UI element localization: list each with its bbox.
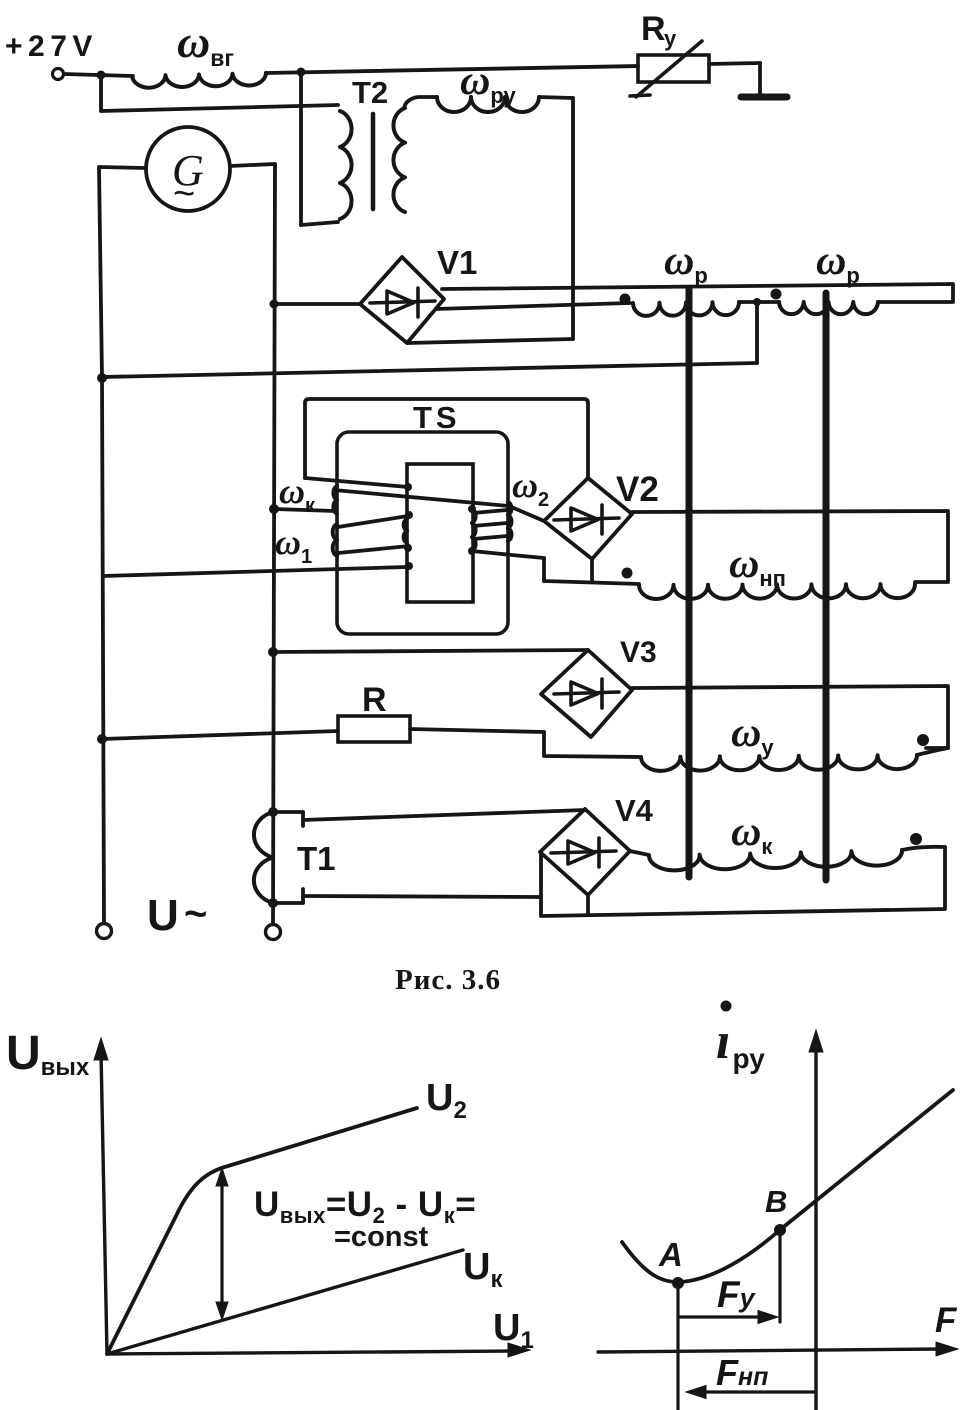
svg-text:V2: V2 [616, 470, 659, 509]
svg-text:~: ~ [184, 892, 207, 936]
svg-text:T1: T1 [297, 840, 336, 877]
svg-text:R: R [641, 10, 666, 48]
svg-text:T2: T2 [352, 75, 388, 110]
svg-text:V4: V4 [615, 793, 654, 828]
svg-text:F: F [935, 1301, 958, 1340]
svg-text:=const: =const [334, 1221, 429, 1253]
svg-text:A: A [658, 1236, 683, 1273]
svg-text:U: U [147, 891, 179, 940]
svg-text:V3: V3 [620, 636, 657, 669]
svg-text:B: B [765, 1184, 787, 1219]
svg-text:R: R [362, 681, 387, 719]
svg-text:~: ~ [173, 173, 195, 215]
svg-text:у: у [664, 26, 677, 51]
svg-text:V1: V1 [437, 244, 477, 281]
svg-text:Рис. 3.6: Рис. 3.6 [395, 964, 501, 996]
svg-text:+27V: +27V [5, 30, 98, 63]
svg-text:TS: TS [413, 400, 461, 435]
